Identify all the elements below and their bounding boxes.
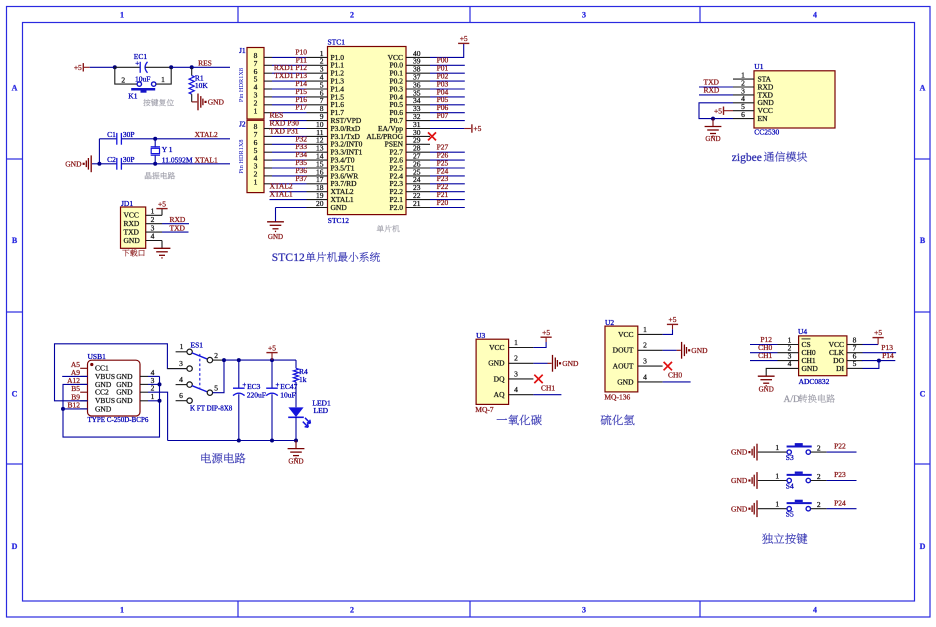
svg-text:XTAL2: XTAL2 [195, 130, 218, 139]
pin 3 JD1 [146, 231, 162, 233]
pin 38 MCU P0.1 [406, 72, 430, 74]
wire RES to MCU pin 9 [270, 120, 307, 122]
svg-text:DOUT: DOUT [613, 346, 634, 355]
wire pin4 to gnd bus [148, 375, 160, 377]
wire XTAL1 net [155, 163, 230, 165]
svg-text:2: 2 [350, 11, 354, 20]
wire J1 pin2 to MCU pin 7 net P16 [264, 104, 272, 106]
resistor R1 10K [191, 67, 193, 75]
svg-text:30P: 30P [123, 130, 135, 139]
wire J2 pin2 to MCU pin 16 net P36 [264, 175, 272, 177]
svg-text:6: 6 [741, 110, 745, 119]
wire JD1 pin4 to ground [161, 241, 163, 249]
svg-text:3: 3 [582, 11, 586, 20]
pin 32 MCU P0.7 [406, 120, 430, 122]
svg-text:GND: GND [691, 346, 708, 355]
diode LED1 [288, 407, 303, 417]
wire J2 pin5 to MCU pin 13 net P33 [264, 151, 272, 153]
svg-text:DI: DI [836, 364, 844, 373]
pin 2 U4 CH0 [778, 352, 799, 354]
pin 2 U3 GND [509, 362, 534, 364]
svg-text:2: 2 [817, 472, 821, 481]
svg-text:TYPE C-250D-BCP6: TYPE C-250D-BCP6 [88, 416, 149, 424]
pin 27 MCU P2.6 [406, 159, 430, 161]
pin 6 U4 DO [847, 360, 863, 362]
svg-text:1: 1 [775, 443, 779, 452]
svg-text:+5: +5 [473, 124, 481, 133]
wire RXD net (JD1) [162, 223, 189, 225]
capacitor EC1 10uF [139, 62, 141, 73]
power +5 (MQ-136) [672, 324, 674, 329]
svg-text:P14: P14 [882, 351, 894, 360]
pin A9 USB1 [80, 375, 87, 377]
wire U4 GND pin4 [766, 368, 798, 376]
node B12 junction [61, 407, 65, 411]
wire U2 VCC to +5 [663, 329, 673, 334]
ground GND (ADC) [758, 375, 775, 377]
ground GND (JD1) [154, 247, 171, 249]
svg-text:S3: S3 [786, 453, 794, 462]
pin 17 MCU P3.7/RD [307, 183, 328, 185]
wire node2 to RES node [171, 66, 192, 68]
svg-text:2: 2 [643, 341, 647, 350]
svg-text:4: 4 [813, 11, 817, 20]
pin 16 MCU P3.6/WR [307, 175, 328, 177]
pin 40 MCU VCC [406, 56, 430, 58]
svg-text:TXD: TXD [170, 223, 186, 232]
ground GND (S3) [748, 451, 750, 453]
pin A12 USB1 [80, 383, 87, 385]
svg-text:ES1: ES1 [191, 341, 204, 350]
wire P23 [430, 183, 465, 185]
wire pin2 to right rail [148, 392, 168, 440]
switch ES1 pin6 [176, 400, 188, 402]
svg-text:GND: GND [731, 448, 748, 457]
node XTAL1 junction [153, 162, 157, 166]
pin 13 MCU P3.3/INT1 [307, 151, 328, 153]
svg-text:20: 20 [316, 199, 324, 208]
svg-text:GND: GND [288, 458, 303, 466]
svg-text:VCC: VCC [618, 330, 633, 339]
pin 29 MCU PSEN [406, 143, 430, 145]
svg-text:zigbee: zigbee [732, 152, 762, 164]
pin 2 USB1 right [140, 391, 148, 393]
wire C2 to XTAL1 node [121, 163, 155, 165]
svg-text:P07: P07 [437, 111, 449, 120]
svg-text:GND: GND [208, 98, 225, 107]
pin 12 MCU P3.2/INT0 [307, 143, 328, 145]
pin 31 MCU EA/Vpp [406, 128, 430, 130]
svg-text:5: 5 [214, 383, 218, 392]
wire GND/EN loop [699, 103, 733, 119]
pin 35 MCU P0.4 [406, 96, 430, 98]
wire CH1 net [533, 394, 561, 396]
svg-text:USB1: USB1 [88, 352, 107, 361]
svg-text:GND: GND [268, 233, 283, 241]
wire DI to DO [863, 361, 879, 369]
wire J2 pin4 to MCU pin 14 net P34 [264, 159, 272, 161]
ground GND (S4) [748, 479, 750, 481]
svg-text:CH0: CH0 [668, 371, 682, 380]
title independent buttons [762, 533, 773, 543]
wire K1 branch left [115, 67, 137, 84]
svg-text:C: C [920, 390, 926, 399]
ground GND (zigbee) [712, 119, 714, 127]
svg-text:D: D [12, 542, 18, 551]
pin 34 MCU P0.5 [406, 104, 430, 106]
pin 3 U3 DQ [509, 378, 534, 380]
pin 1 MCU P1.0 [307, 56, 328, 58]
wire RES net [192, 66, 230, 68]
svg-text:1: 1 [120, 606, 124, 615]
svg-text:MQ-136: MQ-136 [604, 392, 630, 401]
pin B12 USB1 [80, 408, 87, 410]
node reset-left junction [113, 65, 117, 69]
svg-text:GND: GND [116, 396, 133, 405]
wire P12 net [750, 344, 778, 346]
wire S3 to P22 [811, 451, 827, 453]
svg-text:6: 6 [179, 391, 183, 400]
svg-text:+5: +5 [714, 106, 722, 115]
svg-text:1: 1 [161, 75, 165, 84]
pin 1 U3 VCC [509, 347, 534, 349]
wire R1 to GND [191, 94, 193, 102]
pin 3 USB1 right [140, 383, 148, 385]
wire J1 pin7 to MCU pin 2 net P11 [264, 64, 272, 66]
power +5 (rail) [271, 353, 273, 361]
title power circuit [201, 453, 211, 463]
svg-text:U1: U1 [754, 62, 763, 71]
wire CH0 net [663, 381, 691, 383]
wire S4 to P23 [811, 480, 827, 482]
svg-text:XTAL1: XTAL1 [195, 155, 218, 164]
wire U2 DOUT to GND [663, 349, 677, 351]
wire P27 [430, 151, 465, 153]
ground GND (reset) [197, 94, 199, 111]
pin 30 MCU ALE/PROG [406, 135, 430, 137]
svg-text:GND: GND [617, 377, 634, 386]
wire VBUS B9 from top rail [55, 344, 188, 401]
svg-text:3: 3 [179, 359, 183, 368]
node reset-right junction [169, 65, 173, 69]
switch ES1 dashed link [199, 354, 201, 388]
svg-text:2: 2 [121, 75, 125, 84]
wire GND to S3 [758, 451, 787, 453]
svg-text:A: A [12, 84, 18, 93]
wire J2 pin7 to MCU pin 11 net TXD P31 [264, 135, 272, 137]
svg-text:+5: +5 [874, 328, 882, 337]
pushbutton S4 [787, 478, 791, 482]
pin 7 MCU P1.6 [307, 104, 328, 106]
svg-text:STC12: STC12 [328, 216, 350, 225]
pin 24 MCU P2.3 [406, 183, 430, 185]
wire VBUS A9 [62, 375, 87, 377]
pin 36 MCU P0.3 [406, 88, 430, 90]
svg-text:D: D [920, 542, 926, 551]
svg-text:21: 21 [413, 199, 421, 208]
svg-text:1: 1 [151, 392, 155, 401]
wire CH0 to U4 [750, 352, 778, 354]
svg-text:+5: +5 [460, 34, 468, 43]
wire P21 [430, 199, 465, 201]
svg-text:4: 4 [151, 232, 155, 241]
node crystal-gnd junction [97, 162, 101, 166]
ground GND (MQ-7) [552, 355, 554, 372]
svg-text:C1: C1 [107, 130, 116, 139]
wire C2 left [99, 163, 116, 165]
svg-text:B: B [12, 236, 18, 245]
wire P22 [430, 191, 465, 193]
wire TXD to U1 pin2 [699, 86, 733, 88]
overline CS pin1 [802, 338, 811, 340]
svg-text:GND: GND [488, 359, 505, 368]
node DO-DI junction [877, 359, 881, 363]
svg-text:CH1: CH1 [541, 384, 555, 393]
pin 33 MCU P0.6 [406, 112, 430, 114]
svg-text:P2.0: P2.0 [389, 203, 403, 212]
crystal Y1 11.0592M [154, 139, 156, 148]
wire P20 [430, 207, 465, 209]
wire J2 pin6 to MCU pin 12 net P32 [264, 143, 272, 145]
svg-text:1: 1 [643, 325, 647, 334]
pin A5 USB1 [80, 367, 87, 369]
svg-text:GND: GND [731, 504, 748, 513]
pin B5 USB1 [80, 391, 87, 393]
resistor R4 1k [295, 360, 297, 368]
wire CH1 to U4 [750, 360, 778, 362]
wire J1 pin5 to MCU pin 4 net TXD1 P13 [264, 80, 272, 82]
wire MCU pin 20 GND [276, 207, 307, 209]
pushbutton K1 [137, 82, 141, 86]
svg-text:K1: K1 [128, 92, 137, 101]
svg-text:Pin HDR1X8: Pin HDR1X8 [238, 68, 245, 102]
pin 7 U4 CLK [847, 352, 863, 354]
wire bottom rail right [168, 440, 296, 442]
svg-text:GND: GND [731, 476, 748, 485]
switch ES1 pin5 [207, 390, 212, 395]
label reset caption [143, 99, 150, 106]
svg-text:11.0592M: 11.0592M [162, 155, 193, 164]
wire P00 [430, 64, 465, 66]
wire node to EC1 [115, 66, 140, 68]
svg-text:5: 5 [853, 359, 857, 368]
wire J2 pin8 to MCU pin 10 net RXD P30 [264, 128, 272, 130]
ground GND (MQ-136) [681, 342, 683, 359]
ground GND (S5) [748, 508, 750, 510]
svg-text:30P: 30P [123, 155, 135, 164]
wire K1 branch right [156, 67, 171, 84]
wire vertical C1-C2 left [98, 139, 100, 164]
svg-text:MQ-7: MQ-7 [475, 405, 494, 414]
svg-text:GND: GND [124, 236, 141, 245]
wire J2 pin3 to MCU pin 15 net P35 [264, 167, 272, 169]
pin 4 U2 GND [638, 381, 663, 383]
power +5 (ADC) [873, 337, 884, 339]
wire GND to node [92, 163, 99, 165]
svg-text:C: C [12, 390, 18, 399]
pin 6 MCU P1.5 [307, 96, 328, 98]
svg-text:EC1: EC1 [134, 52, 148, 61]
pin B9 USB1 [80, 400, 87, 402]
power +5 (zigbee) [723, 107, 725, 115]
svg-text:2: 2 [817, 500, 821, 509]
pin 15 MCU P3.5/T1 [307, 167, 328, 169]
svg-text:P24: P24 [834, 498, 846, 507]
svg-text:GND: GND [331, 203, 348, 212]
wire R4 to LED1 [295, 382, 297, 407]
node rail EC47 [270, 439, 274, 443]
svg-text:220uF: 220uF [247, 391, 266, 400]
wire U3 GND [533, 362, 547, 364]
svg-text:GND: GND [802, 364, 819, 373]
svg-text:CH1: CH1 [758, 351, 772, 360]
switch ES1 blade 4-5 [192, 386, 208, 392]
node EC3 top [237, 358, 241, 362]
ground GND (MCU) [267, 221, 284, 223]
svg-text:+5: +5 [268, 343, 276, 352]
pin 39 MCU P0.0 [406, 64, 430, 66]
svg-text:J2: J2 [239, 120, 246, 129]
pin 4 U3 AQ [509, 394, 534, 396]
label crystal caption [145, 172, 152, 179]
switch ES1 pin4 [176, 384, 188, 386]
node rail LED [294, 439, 298, 443]
switch ES1 pin2 [207, 357, 212, 362]
pin 8 U4 VCC [847, 344, 863, 346]
wire EC1 to node2 [145, 66, 171, 68]
no-connect X U3 DQ [534, 375, 542, 383]
node zigbee gnd junction [711, 117, 715, 121]
svg-text:RXD: RXD [704, 85, 720, 94]
title carbon monoxide [497, 418, 507, 419]
wire J1 pin8 to MCU pin 1 net P10 [264, 56, 272, 58]
wire U4 VCC to +5 [863, 344, 879, 346]
wire pin3 to gnd bus [148, 383, 160, 385]
switch ES1 pin3 [167, 368, 187, 370]
svg-text:RES: RES [198, 59, 212, 68]
svg-text:A: A [920, 84, 926, 93]
wire LED1 to rail [295, 417, 297, 440]
power +5 (MCU VCC) [458, 42, 469, 44]
label JD1 caption [122, 250, 129, 257]
wire P14/DO net [862, 360, 896, 362]
svg-text:GND: GND [759, 385, 774, 393]
svg-text:3: 3 [582, 606, 586, 615]
svg-text:1: 1 [254, 106, 258, 115]
power +5 (EA/Vpp) [471, 124, 473, 132]
wire P25 [430, 167, 465, 169]
svg-text:4: 4 [643, 372, 647, 381]
svg-text:B12: B12 [67, 401, 80, 410]
svg-text:1: 1 [180, 342, 184, 351]
wire J1 pin4 to MCU pin 5 net P14 [264, 88, 272, 90]
svg-text:P20: P20 [437, 198, 449, 207]
svg-text:ADC0832: ADC0832 [799, 377, 830, 386]
wire S5 to P24 [811, 508, 827, 510]
capacitor C2 30P [116, 158, 118, 170]
pin 4 MCU P1.3 [307, 80, 328, 82]
wire P05 [430, 104, 465, 106]
svg-text:+5: +5 [74, 63, 82, 72]
svg-text:1: 1 [254, 177, 258, 186]
node rail pin2 [222, 358, 226, 362]
wire U3 VCC to +5 [533, 342, 546, 348]
svg-text:GND: GND [95, 404, 112, 413]
svg-text:STC1: STC1 [328, 38, 346, 47]
wire P03 [430, 88, 465, 90]
pin 19 MCU XTAL1 [307, 199, 328, 201]
wire P24 [430, 175, 465, 177]
pin 1 U1 STA [733, 78, 754, 80]
svg-text:10uF: 10uF [280, 391, 295, 400]
svg-text:P37: P37 [295, 174, 307, 183]
pin 1 U4 CS [778, 344, 799, 346]
wire P26 [430, 159, 465, 161]
svg-text:+: + [242, 381, 246, 389]
capacitor EC3 220uF [238, 360, 240, 388]
wire J2 pin1 to MCU pin 17 net P37 [264, 183, 272, 185]
pin 22 MCU P2.1 [406, 199, 430, 201]
wire pin5 up to rail [213, 360, 224, 393]
svg-text:AQ: AQ [494, 390, 505, 399]
svg-text:AOUT: AOUT [613, 362, 634, 371]
svg-text:1: 1 [120, 11, 124, 20]
svg-text:B: B [920, 236, 926, 245]
capacitor C1 30P [116, 133, 118, 145]
pin 9 MCU RST/VPD [307, 120, 328, 122]
svg-text:J1: J1 [239, 46, 246, 55]
pin 3 U2 AOUT [638, 365, 663, 367]
pin 4 JD1 [146, 240, 162, 242]
power +5 (JD1) [161, 209, 163, 216]
svg-text:4: 4 [813, 606, 817, 615]
svg-text:P23: P23 [834, 470, 846, 479]
pin 5 U4 DI [847, 367, 863, 369]
wire P07 [430, 120, 465, 122]
svg-text:4: 4 [788, 359, 792, 368]
capacitor EC47 10uF [271, 360, 273, 388]
pin 2 JD1 [146, 223, 162, 225]
svg-text:TXD P31: TXD P31 [270, 126, 299, 135]
pin 14 MCU P3.4/T0 [307, 159, 328, 161]
svg-text:U3: U3 [476, 331, 485, 340]
pin 6 U1 EN [733, 118, 754, 120]
svg-text:1: 1 [775, 500, 779, 509]
svg-text:U2: U2 [605, 318, 614, 327]
pin 1 USB1 right [140, 400, 148, 402]
wire GND to S4 [758, 480, 787, 482]
svg-text:Y 1: Y 1 [162, 145, 173, 154]
svg-text:2: 2 [350, 606, 354, 615]
wire VCC pin40 to +5 [430, 43, 464, 57]
pin 37 MCU P0.2 [406, 80, 430, 82]
svg-text:3: 3 [514, 369, 518, 378]
svg-text:P22: P22 [834, 442, 846, 451]
pin 26 MCU P2.5 [406, 167, 430, 169]
svg-text:VCC: VCC [489, 343, 504, 352]
wire GND A12 to bottom rail [63, 376, 160, 437]
power +5 (reset circuit) [82, 63, 84, 71]
svg-text:4: 4 [514, 385, 518, 394]
pin 25 MCU P2.4 [406, 175, 430, 177]
svg-text:K FT DIP-8X8: K FT DIP-8X8 [190, 404, 233, 412]
pin 28 MCU P2.7 [406, 151, 430, 153]
pin 3 U1 TXD [733, 94, 754, 96]
node gnd bus pin3 [158, 382, 162, 386]
wire P02 [430, 80, 465, 82]
pin 21 MCU P2.0 [406, 207, 430, 209]
node rail EC3 [237, 439, 241, 443]
